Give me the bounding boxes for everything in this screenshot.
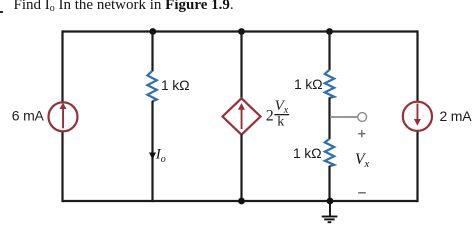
svg-text:2: 2 bbox=[266, 107, 274, 124]
svg-text:6 mA: 6 mA bbox=[12, 107, 45, 123]
current source 2 mA circle bbox=[403, 102, 432, 131]
node: junction top of branch 4 bbox=[326, 28, 333, 35]
wire: branch 3 upper segment bbox=[240, 32, 242, 100]
svg-text:1 kΩ: 1 kΩ bbox=[293, 145, 321, 161]
wire: right branch upper segment bbox=[416, 30, 418, 102]
wire: branch 4 upper segment bbox=[328, 32, 330, 71]
wire: bottom rail bbox=[63, 200, 418, 202]
svg-text:Vx: Vx bbox=[275, 98, 289, 116]
resistor R2 1 kOhm (upper) bbox=[325, 70, 334, 98]
wire: branch 4 lower segment bbox=[328, 166, 330, 201]
svg-text:Io: Io bbox=[155, 147, 166, 166]
node: ground junction bbox=[327, 198, 334, 205]
resistor R3 1 kOhm (lower) bbox=[325, 139, 334, 166]
svg-text:1 kΩ: 1 kΩ bbox=[294, 76, 322, 92]
wire: branch 3 lower segment bbox=[240, 135, 242, 203]
wire: right branch lower segment bbox=[416, 131, 418, 202]
node: junction top of branch 3 bbox=[238, 28, 245, 35]
dependent source arrow bbox=[238, 103, 245, 129]
node: junction bottom of branch 3 bbox=[238, 198, 245, 205]
wire: terminal stub bbox=[330, 116, 358, 118]
dependent current source diamond bbox=[223, 98, 261, 134]
label minus sign bbox=[358, 192, 366, 194]
resistor R1 1 kOhm bbox=[147, 71, 156, 101]
current source 6 mA arrow bbox=[60, 103, 67, 129]
ground symbol bbox=[322, 201, 338, 222]
list marker fragment bbox=[0, 11, 3, 13]
wire: branch 2 lower segment bbox=[151, 101, 153, 202]
svg-text:Vx: Vx bbox=[355, 151, 369, 170]
svg-text:2 mA: 2 mA bbox=[440, 108, 473, 124]
current source 2 mA arrow bbox=[414, 104, 421, 126]
wire: left branch lower segment bbox=[61, 131, 63, 202]
wire: top rail bbox=[63, 30, 418, 32]
current arrow Io on branch 2 bbox=[149, 153, 156, 160]
wire: branch 2 upper segment bbox=[151, 32, 153, 72]
wire: left branch upper segment bbox=[61, 30, 63, 103]
terminal: open circle bbox=[358, 113, 367, 122]
svg-text:1 kΩ: 1 kΩ bbox=[161, 77, 189, 93]
current source 6 mA circle bbox=[49, 102, 78, 131]
caption text bbox=[14, 0, 234, 14]
label plus sign bbox=[358, 130, 365, 137]
wire: branch 4 middle segment bbox=[328, 97, 330, 139]
svg-text:k: k bbox=[277, 115, 284, 130]
label 2 Vx/k bbox=[266, 98, 289, 130]
node: junction top of branch 2 bbox=[149, 28, 156, 35]
